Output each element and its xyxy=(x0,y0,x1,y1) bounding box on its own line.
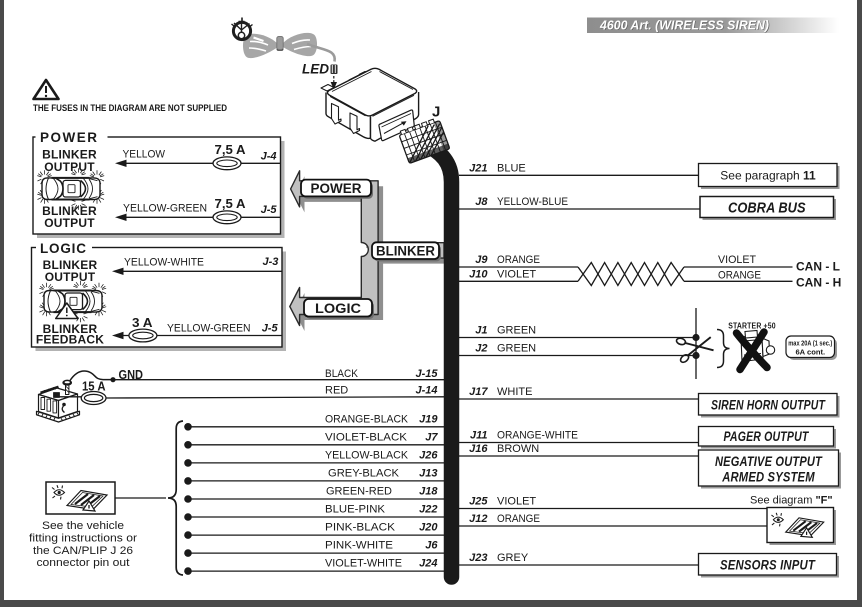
svg-text:J-4: J-4 xyxy=(261,151,277,163)
svg-text:J8: J8 xyxy=(475,196,488,208)
svg-text:ORANGE: ORANGE xyxy=(497,254,540,266)
svg-text:J25: J25 xyxy=(469,496,488,508)
svg-text:J20: J20 xyxy=(419,522,438,534)
svg-text:J: J xyxy=(432,104,440,121)
svg-text:4600 Art. (WIRELESS SIREN): 4600 Art. (WIRELESS SIREN) xyxy=(599,18,769,33)
svg-text:6A cont.: 6A cont. xyxy=(795,348,825,357)
svg-text:OUTPUT: OUTPUT xyxy=(45,270,96,284)
svg-text:VIOLET-BLACK: VIOLET-BLACK xyxy=(325,431,408,443)
svg-text:BLUE-PINK: BLUE-PINK xyxy=(325,504,386,516)
svg-text:YELLOW-GREEN: YELLOW-GREEN xyxy=(123,203,207,215)
svg-text:SIREN HORN OUTPUT: SIREN HORN OUTPUT xyxy=(711,398,826,413)
svg-text:See paragraph 11: See paragraph 11 xyxy=(720,169,816,183)
svg-text:VIOLET-WHITE: VIOLET-WHITE xyxy=(325,558,402,570)
svg-text:J16: J16 xyxy=(469,443,488,455)
svg-text:fitting instructions or: fitting instructions or xyxy=(29,533,137,545)
svg-text:YELLOW-BLACK: YELLOW-BLACK xyxy=(325,449,409,461)
svg-text:BLUE: BLUE xyxy=(497,162,526,174)
svg-text:BLACK: BLACK xyxy=(325,368,359,380)
svg-text:J19: J19 xyxy=(419,413,438,425)
svg-text:YELLOW-BLUE: YELLOW-BLUE xyxy=(497,196,568,208)
svg-text:J26: J26 xyxy=(419,449,438,461)
svg-text:J10: J10 xyxy=(469,268,488,280)
svg-text:J12: J12 xyxy=(469,513,487,525)
svg-text:See diagram "F": See diagram "F" xyxy=(750,495,833,507)
svg-text:J-5: J-5 xyxy=(262,322,279,334)
svg-text:WHITE: WHITE xyxy=(497,386,532,398)
svg-text:POWER: POWER xyxy=(311,181,362,196)
svg-text:J9: J9 xyxy=(475,254,488,266)
svg-text:J-3: J-3 xyxy=(262,256,278,268)
svg-text:GREEN-RED: GREEN-RED xyxy=(326,486,392,498)
svg-text:ORANGE: ORANGE xyxy=(718,270,761,282)
svg-text:7,5 A: 7,5 A xyxy=(215,142,247,157)
svg-text:LOGIC: LOGIC xyxy=(40,241,87,256)
svg-text:ARMED SYSTEM: ARMED SYSTEM xyxy=(721,470,815,485)
svg-text:VIOLET: VIOLET xyxy=(497,268,536,280)
svg-text:PAGER OUTPUT: PAGER OUTPUT xyxy=(724,429,810,444)
svg-text:J13: J13 xyxy=(419,467,437,479)
svg-text:the CAN/PLIP J 26: the CAN/PLIP J 26 xyxy=(33,545,133,557)
svg-text:PINK-WHITE: PINK-WHITE xyxy=(325,540,393,552)
svg-text:GREY-BLACK: GREY-BLACK xyxy=(328,467,400,479)
svg-text:STARTER +50: STARTER +50 xyxy=(728,321,776,331)
svg-text:J-5: J-5 xyxy=(261,204,278,216)
svg-text:3 A: 3 A xyxy=(132,315,153,330)
svg-text:J23: J23 xyxy=(469,552,487,564)
svg-text:LED: LED xyxy=(302,61,329,77)
svg-text:THE FUSES IN THE DIAGRAM ARE N: THE FUSES IN THE DIAGRAM ARE NOT SUPPLIE… xyxy=(33,103,227,114)
svg-text:J2: J2 xyxy=(475,343,487,355)
svg-text:15 A: 15 A xyxy=(82,379,106,394)
svg-text:BROWN: BROWN xyxy=(497,443,539,455)
svg-text:PINK-BLACK: PINK-BLACK xyxy=(325,522,396,534)
svg-text:OUTPUT: OUTPUT xyxy=(44,216,95,230)
svg-text:VIOLET: VIOLET xyxy=(718,254,756,266)
svg-text:YELLOW-WHITE: YELLOW-WHITE xyxy=(124,256,204,268)
svg-text:YELLOW-GREEN: YELLOW-GREEN xyxy=(167,322,251,334)
svg-text:7,5 A: 7,5 A xyxy=(215,196,247,211)
svg-text:See the vehicle: See the vehicle xyxy=(42,520,124,532)
svg-text:GREEN: GREEN xyxy=(497,343,536,355)
svg-text:GREY: GREY xyxy=(497,552,529,564)
svg-text:max 20A (1 sec.): max 20A (1 sec.) xyxy=(788,339,832,348)
svg-text:LOGIC: LOGIC xyxy=(315,301,361,316)
svg-text:POWER: POWER xyxy=(40,130,99,145)
svg-text:OUTPUT: OUTPUT xyxy=(44,160,95,174)
svg-text:RED: RED xyxy=(325,385,348,397)
svg-text:CAN - L: CAN - L xyxy=(796,260,840,274)
svg-text:connector pin out: connector pin out xyxy=(37,557,130,569)
svg-text:J7: J7 xyxy=(425,431,438,443)
svg-text:J24: J24 xyxy=(419,558,437,570)
svg-text:J-14: J-14 xyxy=(415,385,437,397)
svg-text:COBRA BUS: COBRA BUS xyxy=(728,201,806,217)
svg-text:J-15: J-15 xyxy=(415,368,438,380)
svg-text:SENSORS INPUT: SENSORS INPUT xyxy=(720,558,816,573)
svg-text:J22: J22 xyxy=(419,504,437,516)
svg-text:NEGATIVE OUTPUT: NEGATIVE OUTPUT xyxy=(715,454,823,469)
svg-text:ORANGE-BLACK: ORANGE-BLACK xyxy=(325,413,409,425)
svg-text:ORANGE-WHITE: ORANGE-WHITE xyxy=(497,430,578,442)
svg-text:GREEN: GREEN xyxy=(497,325,536,337)
svg-text:J11: J11 xyxy=(470,430,488,442)
svg-text:ORANGE: ORANGE xyxy=(497,513,540,525)
svg-text:J18: J18 xyxy=(419,486,438,498)
svg-text:VIOLET: VIOLET xyxy=(497,496,536,508)
svg-text:J1: J1 xyxy=(475,325,487,337)
svg-text:BLINKER: BLINKER xyxy=(376,244,435,259)
svg-text:FEEDBACK: FEEDBACK xyxy=(36,333,104,347)
svg-text:J6: J6 xyxy=(425,540,438,552)
svg-text:J17: J17 xyxy=(469,386,488,398)
svg-text:CAN - H: CAN - H xyxy=(796,276,841,290)
svg-text:YELLOW: YELLOW xyxy=(123,149,166,161)
svg-text:J21: J21 xyxy=(469,162,487,174)
